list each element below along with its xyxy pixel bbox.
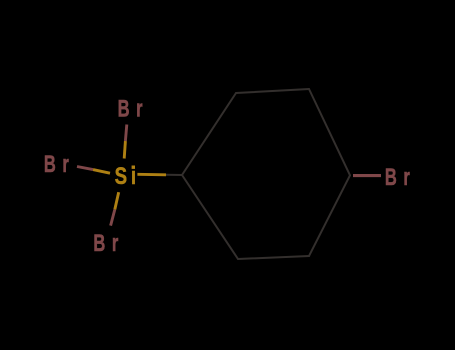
svg-text:Br: Br [44,151,76,178]
bond Si-Br(top) maroon half [125,125,126,142]
wire ring edge C4-C5 (lower-right) [309,175,350,256]
svg-text:Br: Br [118,95,150,122]
svg-text:Br: Br [93,230,125,257]
bond Si-Br(top) golden half [124,141,125,159]
bond Si-C1 golden half [137,173,166,176]
wire ring edge C5-C6 (bottom) [238,256,309,259]
bond C4-Br(right) maroon [353,174,381,177]
bond Si-Br(bottom) golden half [115,192,119,209]
wire ring edge C6-C1 (lower-left) [182,175,238,259]
svg-text:Sı: Sı [115,162,140,190]
svg-text:Br: Br [385,164,417,191]
wire C1-Si bond carbon-gray half [166,174,182,176]
atom label Si i-dot [132,166,135,169]
bond Si-Br(left) maroon half [77,167,93,170]
bond Si-Br(bottom) maroon half [111,210,115,226]
wire ring edge C2-C3 (top) [236,89,309,93]
benzene ring C1-C6 hexagon [166,89,350,259]
bond Si-Br(left) golden half [93,170,110,174]
wire ring edge C3-C4 (upper-right) [309,89,350,175]
wire ring edge C1-C2 (upper-left) [182,93,236,175]
